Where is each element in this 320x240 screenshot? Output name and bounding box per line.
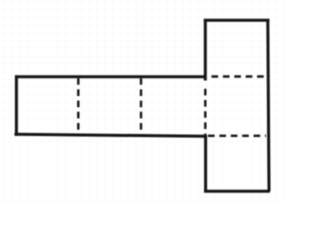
solid edge: lower-left side of vertical strip bbox=[204, 135, 207, 192]
solid edge: top of vertical strip bbox=[204, 19, 270, 22]
solid edge: upper-left side of vertical strip bbox=[204, 19, 207, 81]
faint graph-paper grid bbox=[0, 0, 285, 204]
solid edge: top of horizontal strip bbox=[15, 75, 207, 78]
solid edge: bottom of horizontal strip bbox=[15, 134, 207, 136]
fold line (dashed): lower fold of vertical strip bbox=[208, 135, 266, 137]
solid edge: right side of vertical strip bbox=[268, 19, 269, 192]
fold line (dashed): left side of vertical strip middle square bbox=[204, 89, 206, 136]
solid edge: left end of horizontal strip bbox=[15, 75, 18, 136]
fold line (dashed): upper fold of vertical strip bbox=[212, 75, 267, 77]
fold line (dashed): divider 1 of horizontal strip bbox=[77, 78, 79, 134]
fold line (dashed): divider 2 of horizontal strip bbox=[140, 78, 142, 134]
solid edge: bottom of vertical strip bbox=[204, 190, 270, 193]
